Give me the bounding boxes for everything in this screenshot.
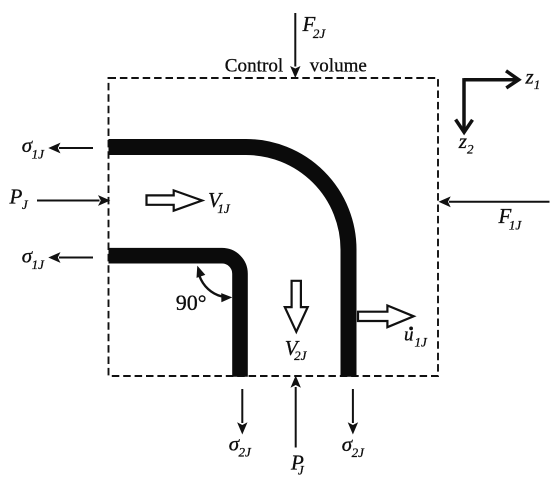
control volume dashed boundary: [109, 78, 439, 376]
svg-text:Control: Control: [225, 56, 283, 77]
arrow sigma2J right (down): [348, 389, 358, 435]
block arrow u1J (right): [358, 306, 414, 328]
pipe outer wall: [109, 147, 349, 377]
arrow PJ left (right-pointing): [37, 195, 110, 206]
svg-text:volume: volume: [310, 56, 367, 77]
arrow sigma1J top (left): [48, 143, 93, 154]
arrow F2J (down, top): [290, 13, 300, 78]
block arrow V2J (down): [285, 281, 308, 332]
axes z1 z2: [456, 71, 519, 132]
arrow sigma1J bottom (left): [48, 252, 93, 263]
label u-dot 1J: [409, 327, 413, 331]
pipe inner wall: [109, 256, 241, 377]
arrow sigma2J left (down): [237, 389, 247, 435]
svg-text:PJ: PJ: [290, 450, 305, 477]
arrow F1J (left-pointing, right side): [439, 196, 550, 207]
block arrow V1J: [147, 190, 203, 210]
arrow PJ bottom (up): [291, 376, 301, 448]
90 degree arc with arrowheads: [200, 276, 222, 296]
svg-text:90°: 90°: [176, 290, 207, 315]
